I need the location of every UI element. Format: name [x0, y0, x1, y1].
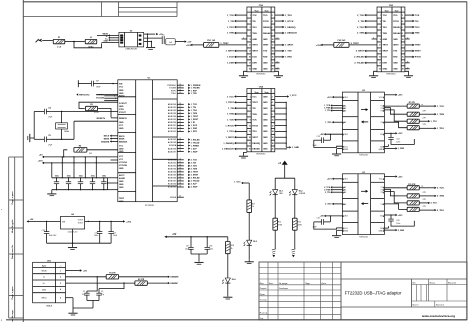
svg-text:DBGRQ: DBGRQ: [263, 27, 271, 29]
svg-text:SI/WUB: SI/WUB: [170, 197, 177, 199]
svg-text:1: 1: [250, 96, 251, 98]
svg-text:RTCK: RTCK: [393, 21, 399, 23]
svg-text:EESK: EESK: [119, 139, 125, 141]
svg-text:Подп. и дата: Подп. и дата: [12, 191, 14, 205]
resistor R16 470R: [293, 218, 303, 230]
svg-text:+5V: +5V: [83, 270, 87, 272]
svg-text:20: 20: [272, 149, 274, 151]
svg-text:0.5A: 0.5A: [57, 46, 62, 49]
svg-text:2_TCK: 2_TCK: [191, 160, 198, 162]
svg-text:14: 14: [402, 50, 404, 53]
net +3V3 output arrow: [123, 220, 132, 223]
svg-text:1_TRST: 1_TRST: [220, 43, 229, 45]
title block texts: [260, 282, 456, 320]
IC U2 buffer 74HC244 body: [342, 90, 384, 157]
svg-text:20: 20: [407, 67, 409, 69]
svg-text:2_TCK: 2_TCK: [357, 15, 364, 17]
svg-text:470R: 470R: [278, 224, 283, 226]
svg-text:74HC244: 74HC244: [359, 155, 368, 157]
svg-text:1_WUP: 1_WUP: [191, 151, 199, 153]
svg-text:Пров.: Пров.: [260, 294, 266, 296]
svg-text:Изм: Изм: [260, 283, 264, 285]
svg-text:13: 13: [379, 51, 381, 53]
svg-text:GND: GND: [393, 63, 398, 65]
svg-text:22: 22: [179, 121, 181, 123]
svg-text:Sym: Sym: [255, 10, 259, 12]
ground CN1: [68, 313, 77, 315]
svg-text:GND: GND: [383, 69, 388, 71]
svg-text:SRST: SRST: [252, 137, 258, 139]
svg-text:Инв. № дубл.: Инв. № дубл.: [11, 219, 14, 233]
svg-text:GND: GND: [252, 69, 257, 71]
svg-text:ADBUS7: ADBUS7: [168, 124, 177, 127]
svg-text:1_GND: 1_GND: [292, 147, 300, 149]
svg-text:2_SRST: 2_SRST: [356, 51, 365, 53]
svg-text:1_DSR: 1_DSR: [191, 128, 198, 130]
svg-text:GND: GND: [344, 231, 349, 233]
wire DL3 to ground: [248, 245, 250, 259]
U3 right pin staircase wires: [384, 188, 407, 210]
svg-text:GND: GND: [119, 90, 124, 92]
svg-text:–: –: [403, 10, 404, 12]
svg-text:FT2232D USB–JTAG adaptor: FT2232D USB–JTAG adaptor: [345, 290, 402, 295]
ground crystal rail: [28, 134, 34, 142]
capacitor C6 1uF: [162, 34, 175, 45]
resistor R13 27R: [407, 199, 426, 205]
svg-text:10: 10: [407, 38, 409, 40]
capacitor C7 33nF: [78, 80, 101, 88]
svg-text:GND: GND: [119, 128, 124, 130]
svg-text:Лит.: Лит.: [412, 282, 416, 284]
svg-text:9: 9: [380, 39, 381, 41]
svg-text:1_TXDEN: 1_TXDEN: [191, 88, 201, 90]
svg-text:10uF: 10uF: [185, 248, 189, 250]
svg-text:47p: 47p: [82, 294, 85, 296]
svg-text:USB-B: USB-B: [46, 305, 53, 307]
svg-text:9: 9: [250, 120, 251, 122]
svg-text:R16: R16: [298, 222, 301, 224]
svg-text:Разраб.: Разраб.: [260, 288, 268, 290]
svg-text:1_TDI: 1_TDI: [191, 107, 197, 109]
svg-text:4: 4: [272, 20, 273, 23]
resistor R8 27R: [407, 111, 426, 117]
CN3 right net labels: [405, 14, 421, 70]
svg-text:TMS: TMS: [252, 114, 257, 116]
svg-text:5: 5: [380, 27, 381, 29]
ground DL1 chain: [272, 249, 276, 258]
svg-text:17: 17: [249, 63, 251, 65]
resistor R9 27R: [407, 118, 426, 124]
svg-text:GND: GND: [119, 151, 124, 153]
capacitor C2 on D- line: [82, 277, 97, 301]
svg-text:GND: GND: [263, 143, 268, 145]
svg-text:100n: 100n: [396, 141, 400, 143]
crystal Q1 6MHz: [56, 112, 70, 140]
ground CN2 left: [239, 71, 248, 77]
resistor R18 1k: [226, 237, 234, 254]
svg-text:VCCIOB: VCCIOB: [119, 165, 127, 167]
svg-text:TXDEN: TXDEN: [169, 88, 177, 90]
svg-text:BDBUS0: BDBUS0: [168, 160, 177, 162]
wires VCC rows to U1: [104, 95, 118, 100]
svg-text:1: 1: [380, 15, 381, 17]
ground CN3 right: [404, 71, 413, 77]
svg-text:1_RXLED: 1_RXLED: [191, 139, 201, 141]
svg-text:Y3: Y3: [380, 192, 382, 194]
title block frame: [259, 262, 467, 320]
svg-text:1_TCK: 1_TCK: [227, 120, 234, 122]
svg-text:16: 16: [402, 57, 404, 59]
CN2 left net labels: [226, 14, 247, 65]
svg-text:2_SRST: 2_SRST: [191, 175, 199, 177]
svg-text:XIN: XIN: [119, 84, 123, 86]
LED DL2 GREEN: [289, 190, 306, 196]
svg-text:Sym: Sym: [265, 92, 269, 94]
svg-text:7: 7: [250, 114, 251, 116]
svg-text:5: 5: [60, 298, 61, 300]
USB net labels VBUS D- D+ GND: [102, 33, 109, 42]
svg-text:+3V3: +3V3: [398, 176, 403, 178]
svg-text:TRST: TRST: [252, 102, 258, 104]
svg-text:1_DBGACK: 1_DBGACK: [285, 32, 297, 35]
svg-text:18: 18: [402, 63, 404, 65]
svg-text:DL3: DL3: [253, 241, 257, 243]
svg-text:GND: GND: [42, 289, 47, 291]
svg-text:3: 3: [60, 283, 61, 285]
svg-text:GND: GND: [378, 231, 383, 233]
svg-text:GND: GND: [119, 184, 124, 186]
svg-text:BDBUS2: BDBUS2: [168, 166, 177, 168]
svg-text:C3: C3: [101, 291, 103, 293]
U1 group-D pins BDBUS: [168, 158, 200, 188]
capacitor C19 10uF input: [42, 221, 58, 243]
svg-text:2_TDI: 2_TDI: [358, 21, 364, 23]
svg-text:VCC: VCC: [119, 156, 124, 158]
svg-text:EEDATA: EEDATA: [101, 140, 109, 143]
svg-text:R15: R15: [278, 222, 281, 224]
wire DL4 to ground: [227, 283, 229, 297]
svg-text:12: 12: [272, 45, 274, 47]
svg-text:TEST: TEST: [119, 198, 125, 200]
svg-text:RTCK: RTCK: [415, 57, 421, 59]
svg-text:Подп.: Подп.: [305, 283, 311, 285]
svg-text:DSR: DSR: [383, 63, 388, 65]
svg-text:VCC: VCC: [119, 159, 124, 161]
port VBUS input arrow: [36, 39, 43, 43]
capacitor C5 27pF: [34, 135, 53, 146]
svg-text:TDI: TDI: [252, 21, 256, 23]
wire filter ground drops: [148, 34, 152, 47]
svg-text:1_VCC: 1_VCC: [290, 95, 297, 97]
wire R16 to ground: [294, 230, 296, 248]
U1 group-A pins PWREN TXDEN RXF TXE: [167, 84, 201, 95]
net labels VCCIOA VCCIOB: [96, 94, 104, 100]
sheet frame right border: [466, 2, 468, 321]
svg-text:19: 19: [379, 69, 381, 71]
svg-text:DCD: DCD: [252, 57, 257, 59]
svg-text:2: 2: [402, 15, 403, 17]
wire F1 to node A: [65, 41, 74, 43]
U1 left pin name texts: [119, 84, 128, 203]
svg-text:GND: GND: [119, 187, 124, 189]
svg-text:RESET#: RESET#: [97, 118, 106, 120]
svg-text:A3: A3: [344, 109, 346, 112]
svg-text:GND: GND: [263, 120, 268, 122]
svg-text:GND: GND: [263, 96, 268, 98]
svg-text:2_TMS: 2_TMS: [357, 33, 365, 35]
ground regulator: [68, 248, 77, 250]
svg-text:1_TDI: 1_TDI: [325, 110, 331, 112]
svg-text:Листов 1: Листов 1: [436, 305, 445, 307]
CN4 right pin1 VCC label: [275, 95, 297, 98]
svg-text:2_TDO: 2_TDO: [191, 166, 198, 168]
svg-text:17: 17: [179, 141, 181, 143]
svg-text:BDBUS4: BDBUS4: [168, 172, 177, 174]
svg-text:20: 20: [179, 171, 181, 173]
ground DL2 chain: [291, 249, 295, 258]
svg-text:BCBUS0: BCBUS0: [168, 184, 177, 186]
reset resistor R3 470R loop: [79, 102, 118, 117]
svg-text:Н.контр.: Н.контр.: [260, 313, 268, 315]
svg-text:SI/WUA: SI/WUA: [169, 144, 177, 147]
wire +5V bottom rail: [166, 236, 228, 237]
svg-text:GND: GND: [378, 149, 383, 151]
svg-text:Лист 1: Лист 1: [412, 305, 419, 307]
sheet frame top border: [23, 1, 467, 3]
svg-text:OE2: OE2: [344, 216, 348, 218]
svg-text:GND: GND: [119, 181, 124, 183]
svg-text:2_TRST: 2_TRST: [351, 43, 360, 45]
net +5V arrow at filter: [156, 33, 163, 36]
svg-text:C14: C14: [396, 139, 399, 141]
svg-text:EECS: EECS: [104, 136, 110, 138]
svg-text:19: 19: [179, 168, 181, 170]
svg-text:1_TCK: 1_TCK: [437, 106, 444, 108]
svg-text:8: 8: [402, 33, 403, 35]
svg-text:2_TDO: 2_TDO: [437, 210, 444, 212]
connector CN3 2x10 header: [377, 5, 405, 76]
svg-text:2_TXLED: 2_TXLED: [354, 63, 364, 65]
svg-text:DCD: DCD: [383, 57, 388, 59]
svg-text:R2 27R: R2 27R: [138, 279, 145, 281]
svg-text:1_DBGACK: 1_DBGACK: [222, 148, 234, 151]
svg-text:1_RTCK: 1_RTCK: [225, 125, 234, 127]
svg-text:2_TDI: 2_TDI: [191, 163, 197, 165]
svg-text:16: 16: [179, 138, 181, 140]
svg-text:Developer: Developer: [279, 288, 288, 290]
svg-text:PU2 1k5: PU2 1k5: [338, 40, 347, 42]
svg-text:TRST: TRST: [383, 45, 389, 47]
wire shield to ground: [66, 298, 94, 313]
svg-text:+5V: +5V: [187, 42, 191, 44]
svg-text:ADBUS3: ADBUS3: [168, 112, 177, 115]
svg-text:TMS: TMS: [415, 33, 420, 35]
wire D+ with series resistor R2: [66, 279, 179, 286]
svg-text:VCC: VCC: [252, 96, 257, 98]
svg-text:R7 27R: R7 27R: [409, 102, 416, 104]
svg-text:BDBUS6: BDBUS6: [168, 178, 177, 180]
svg-text:ACBUS1: ACBUS1: [168, 130, 177, 133]
svg-text:20: 20: [272, 69, 274, 71]
wire RSTOUT row to U1: [97, 94, 118, 96]
svg-text:TCK: TCK: [415, 15, 420, 17]
svg-text:ACBUS3: ACBUS3: [168, 141, 177, 144]
svg-text:15: 15: [379, 57, 381, 59]
CN4 right ground bus: [275, 102, 300, 150]
power rail +5V wire: [39, 155, 118, 158]
svg-text:Sym: Sym: [265, 10, 269, 12]
svg-text:18: 18: [179, 144, 181, 146]
resistor R5 1k5 pullup to CN2: [186, 40, 247, 47]
net RSTOUT label: [76, 93, 90, 96]
svg-text:12: 12: [272, 125, 274, 127]
svg-text:470R: 470R: [94, 112, 99, 114]
ground filter U5: [146, 48, 155, 50]
svg-text:3: 3: [250, 21, 251, 23]
svg-text:C7: C7: [96, 80, 98, 82]
wire caps to ground: [191, 254, 207, 262]
svg-text:2_TRST: 2_TRST: [191, 172, 199, 174]
svg-text:RSTO: RSTO: [119, 96, 125, 98]
ground CN2 right: [274, 71, 283, 77]
svg-text:17: 17: [179, 161, 181, 163]
svg-text:C17: C17: [186, 246, 189, 248]
svg-text:2_GND: 2_GND: [398, 230, 405, 232]
U2 right pin staircase wires: [384, 106, 407, 128]
U2 top right pin label: [384, 94, 402, 97]
svg-text:ADBUS4: ADBUS4: [168, 115, 177, 118]
svg-text:16: 16: [272, 57, 274, 59]
svg-text:16: 16: [179, 84, 181, 86]
svg-text:Т.контр.: Т.контр.: [260, 300, 268, 302]
svg-text:+3V3: +3V3: [186, 45, 192, 47]
svg-text:5: 5: [250, 27, 251, 29]
svg-text:9: 9: [250, 39, 251, 41]
svg-text:24: 24: [179, 127, 181, 129]
svg-text:VCCIOB: VCCIOB: [96, 97, 104, 99]
svg-text:6: 6: [272, 27, 273, 29]
svg-text:1_TXD: 1_TXD: [285, 51, 292, 53]
svg-text:2_RXLED: 2_RXLED: [191, 178, 201, 180]
svg-text:1_DBGRQ: 1_DBGRQ: [285, 27, 296, 29]
svg-text:RXD: RXD: [263, 57, 268, 59]
svg-text:ACBUS2: ACBUS2: [168, 138, 177, 141]
svg-text:R1 27R: R1 27R: [109, 273, 116, 275]
svg-text:1_DBGRQ: 1_DBGRQ: [223, 143, 234, 145]
U3 VCC pin and capacitor C16: [384, 214, 414, 226]
svg-text:–: –: [249, 10, 250, 12]
svg-text:21: 21: [179, 118, 181, 120]
svg-text:1_TDI: 1_TDI: [431, 121, 437, 123]
sheet frame bottom border: [6, 319, 467, 321]
svg-text:10: 10: [277, 38, 279, 40]
svg-text:R18: R18: [231, 245, 234, 247]
svg-text:1_DCD: 1_DCD: [191, 125, 198, 127]
svg-text:25: 25: [179, 130, 181, 132]
svg-text:OE2: OE2: [344, 134, 348, 136]
svg-text:Взам. инв. №: Взам. инв. №: [11, 245, 14, 259]
power +5V symbol for LEDs: [278, 161, 288, 179]
svg-text:C16: C16: [396, 220, 399, 222]
svg-text:TMS: TMS: [383, 33, 388, 35]
wire VBUS to fuse F1: [42, 39, 53, 41]
svg-text:7: 7: [250, 33, 251, 35]
svg-text:RESET#: RESET#: [119, 118, 128, 120]
svg-text:ADBUS6: ADBUS6: [168, 147, 177, 150]
svg-text:ADBUS1: ADBUS1: [168, 106, 177, 109]
svg-text:VCCIOA: VCCIOA: [96, 94, 104, 97]
svg-text:HDR10X2: HDR10X2: [386, 74, 396, 76]
svg-text:1_TCK: 1_TCK: [227, 15, 234, 17]
svg-text:GND: GND: [119, 106, 124, 108]
svg-text:2_TDI: 2_TDI: [431, 203, 437, 205]
power rail +3V3 wire: [38, 161, 118, 164]
svg-text:1_TMS: 1_TMS: [227, 114, 235, 116]
svg-text:23: 23: [179, 124, 181, 126]
U2 ground: [332, 149, 342, 156]
svg-text:18: 18: [407, 61, 409, 63]
svg-text:1_TDI: 1_TDI: [228, 21, 234, 23]
svg-text:1_DCD: 1_DCD: [227, 57, 235, 59]
svg-text:VCC: VCC: [379, 179, 384, 181]
svg-text:3: 3: [380, 21, 381, 23]
connector CN4 2x10 header: [247, 86, 275, 156]
svg-text:+5V: +5V: [30, 219, 34, 221]
svg-text:1_SRST: 1_SRST: [226, 137, 235, 139]
svg-text:1_SRST: 1_SRST: [285, 45, 294, 47]
svg-text:10: 10: [402, 39, 404, 41]
svg-text:ADBUS7: ADBUS7: [168, 150, 177, 153]
wires USB nets to filter U5: [97, 36, 119, 43]
U2 OE2 net and capacitor C13: [312, 133, 342, 147]
svg-text:1_TXLED: 1_TXLED: [191, 142, 200, 144]
svg-text:2_TMS: 2_TMS: [437, 196, 445, 198]
svg-text:SRST: SRST: [263, 45, 269, 47]
svg-text:RTCK: RTCK: [252, 125, 258, 127]
U3 buffered outputs: [419, 187, 444, 212]
svg-text:1_GND: 1_GND: [398, 148, 405, 150]
node A junction: [73, 41, 75, 43]
svg-text:▪: ▪: [1, 318, 2, 322]
svg-text:1_RI: 1_RI: [191, 122, 196, 124]
svg-text:GND: GND: [263, 114, 268, 116]
svg-text:DBGRQ: DBGRQ: [393, 27, 401, 29]
svg-text:USBDP: USBDP: [170, 283, 178, 285]
ground CN4 left: [239, 152, 248, 158]
svg-text:VCC: VCC: [119, 146, 124, 148]
svg-text:18: 18: [179, 164, 181, 166]
net +5V arrow bottom rail: [164, 234, 177, 238]
U1 group-C pins ACBUS: [168, 138, 200, 153]
connector CN1 USB-B: [33, 260, 66, 307]
wire C7 to U1 pin: [93, 83, 117, 84]
U3 left pin wires and labels: [324, 178, 342, 206]
svg-text:74HC244: 74HC244: [359, 236, 368, 238]
svg-text:Масса: Масса: [430, 282, 437, 284]
svg-text:14: 14: [272, 50, 274, 53]
resistor R15 470R: [273, 218, 283, 230]
svg-text:GND: GND: [263, 63, 268, 65]
U3 ground: [332, 230, 342, 237]
svg-text:18: 18: [272, 63, 274, 65]
svg-text:2_TDO: 2_TDO: [325, 204, 332, 206]
capacitor C3 on D+ line: [96, 283, 124, 300]
svg-text:19: 19: [179, 112, 181, 114]
svg-text:TDI: TDI: [252, 108, 256, 110]
svg-text:1_TDI: 1_TDI: [228, 108, 234, 110]
crystal network left rail: [33, 112, 35, 140]
svg-text:ADBUS6: ADBUS6: [168, 121, 177, 124]
